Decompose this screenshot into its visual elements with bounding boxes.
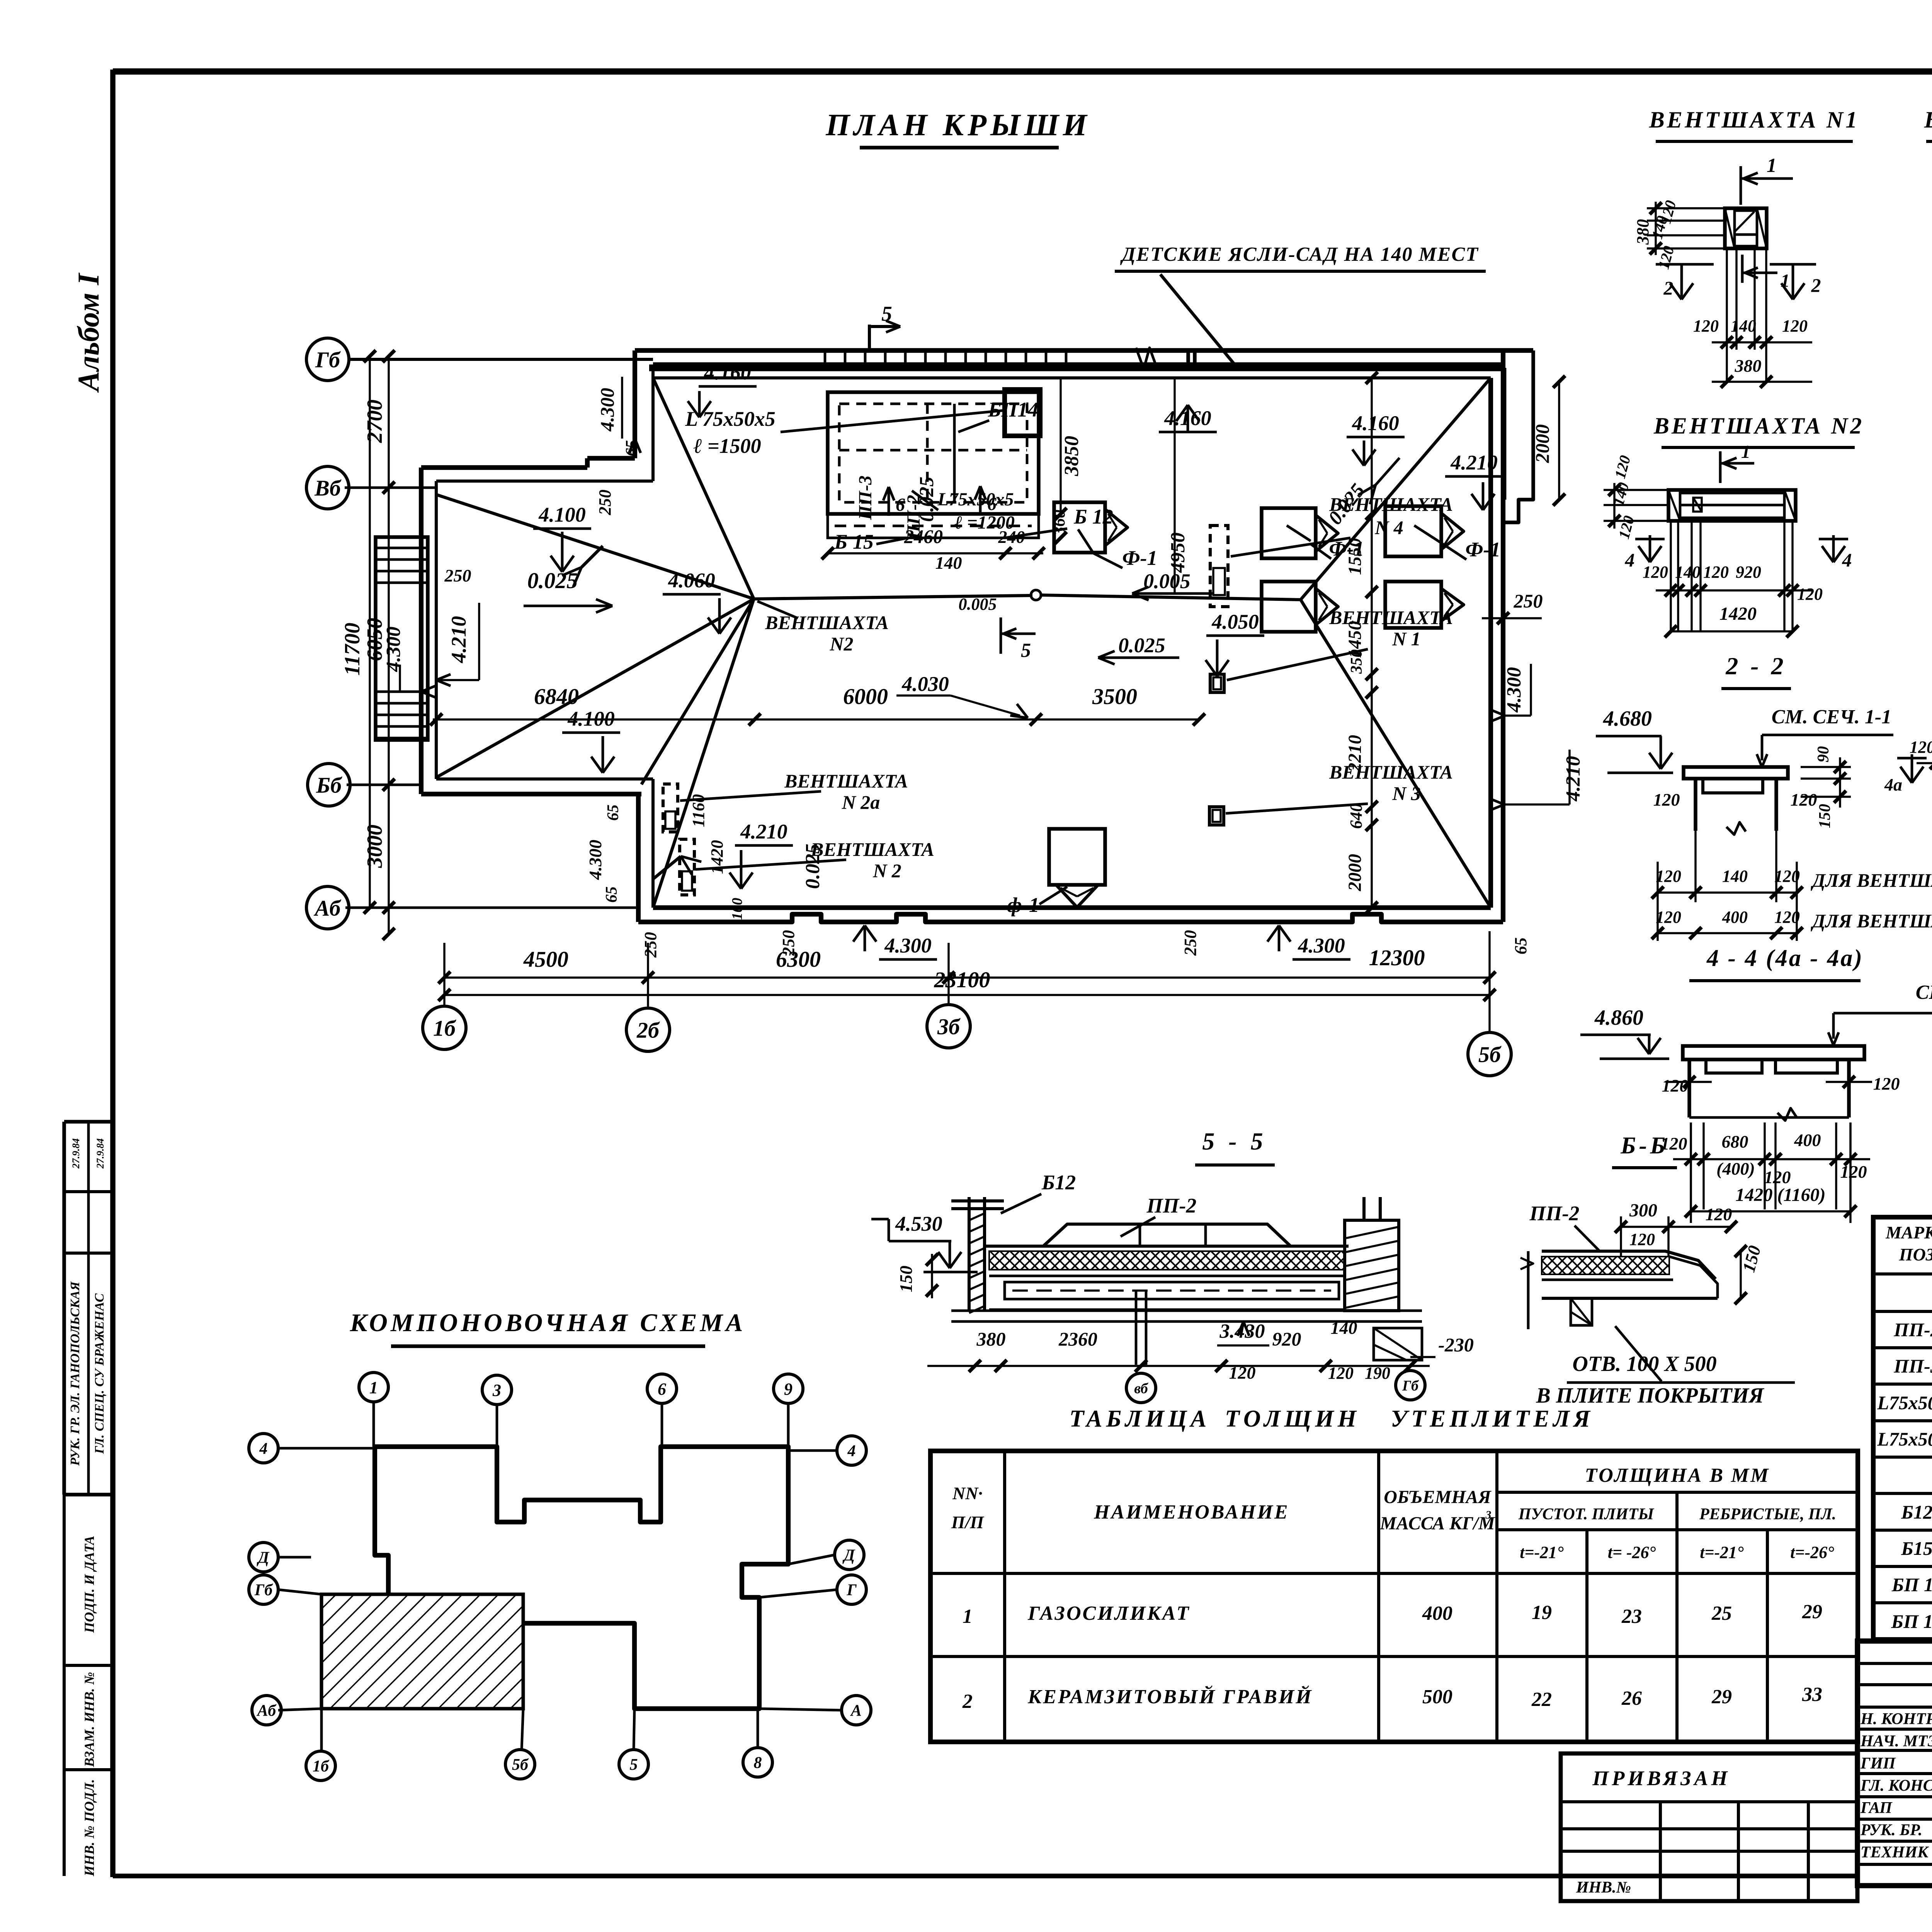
svg-text:65: 65 <box>1511 937 1530 954</box>
svg-text:25: 25 <box>1711 1602 1732 1624</box>
svg-text:4.160: 4.160 <box>704 361 751 384</box>
svg-text:2210: 2210 <box>1345 735 1365 772</box>
svg-text:1: 1 <box>1767 155 1777 177</box>
svg-text:ДЕТСКИЕ ЯСЛИ-САД НА 140 М: ДЕТСКИЕ ЯСЛИ-САД НА 140 МЕСТ <box>1120 243 1479 265</box>
svg-text:150: 150 <box>1816 804 1834 828</box>
svg-text:6840: 6840 <box>534 684 579 709</box>
svg-text:120: 120 <box>1791 790 1817 810</box>
svg-text:27.9.84: 27.9.84 <box>95 1138 106 1169</box>
svg-text:Гб: Гб <box>1402 1378 1419 1394</box>
svg-text:РУК. БР.: РУК. БР. <box>1860 1821 1922 1839</box>
svg-text:Гб: Гб <box>315 347 341 372</box>
svg-text:4.160: 4.160 <box>1352 412 1399 435</box>
svg-text:t=-26°: t=-26° <box>1790 1543 1834 1562</box>
svg-text:4: 4 <box>1842 549 1852 571</box>
svg-text:ВЕНТШАХТА N23: ВЕНТШАХТА N23 <box>1924 107 1932 133</box>
svg-text:240: 240 <box>998 527 1025 547</box>
svg-text:120: 120 <box>1629 1230 1655 1249</box>
svg-text:ГИП: ГИП <box>1860 1755 1896 1772</box>
svg-text:120: 120 <box>1910 738 1932 757</box>
svg-text:5 - 5: 5 - 5 <box>1202 1128 1267 1155</box>
svg-text:N 4: N 4 <box>1374 517 1403 538</box>
svg-text:ОТВ. 100 X 500: ОТВ. 100 X 500 <box>1572 1352 1716 1376</box>
svg-text:250: 250 <box>1181 930 1200 956</box>
svg-text:ГЛ. СПЕЦ. СУ БРАЖЕНАС: ГЛ. СПЕЦ. СУ БРАЖЕНАС <box>92 1293 107 1454</box>
svg-text:33: 33 <box>1802 1684 1822 1706</box>
svg-text:ВЕНТШАХТА: ВЕНТШАХТА <box>765 612 889 633</box>
svg-text:НАЧ. МТЭП: НАЧ. МТЭП <box>1860 1733 1932 1750</box>
svg-text:4.300: 4.300 <box>1503 667 1525 713</box>
svg-text:-230: -230 <box>1438 1334 1474 1355</box>
svg-text:680: 680 <box>1722 1132 1748 1151</box>
svg-text:4.210: 4.210 <box>740 820 787 843</box>
svg-text:Б12: Б12 <box>1041 1171 1076 1194</box>
svg-text:23100: 23100 <box>934 967 990 992</box>
svg-text:ПЛАН КРЫШИ: ПЛАН КРЫШИ <box>825 108 1091 142</box>
svg-text:2000: 2000 <box>1531 424 1553 463</box>
svg-text:N 3: N 3 <box>1392 782 1421 804</box>
svg-text:0.005: 0.005 <box>959 595 997 614</box>
svg-text:ГЛ. КОНСТ: ГЛ. КОНСТ <box>1860 1777 1932 1795</box>
svg-text:4.030: 4.030 <box>901 672 949 696</box>
svg-text:КЕРАМЗИТОВЫЙ ГРАВИЙ: КЕРАМЗИТОВЫЙ ГРАВИЙ <box>1027 1685 1313 1708</box>
svg-text:5: 5 <box>881 302 892 325</box>
svg-text:29: 29 <box>1711 1686 1732 1708</box>
svg-text:ГАЗОСИЛИКАТ: ГАЗОСИЛИКАТ <box>1027 1602 1190 1624</box>
svg-text:ПОДП. И ДАТА: ПОДП. И ДАТА <box>82 1536 97 1633</box>
svg-text:140: 140 <box>1331 1318 1357 1338</box>
svg-text:1420: 1420 <box>707 840 726 874</box>
svg-text:Г: Г <box>846 1582 857 1599</box>
svg-text:1б: 1б <box>313 1758 330 1776</box>
svg-text:4.210: 4.210 <box>1450 451 1498 474</box>
svg-text:РУК. ГР. ЭЛ. ГАНОПОЛЬСКАЯ: РУК. ГР. ЭЛ. ГАНОПОЛЬСКАЯ <box>68 1281 82 1466</box>
svg-text:2: 2 <box>1811 274 1821 296</box>
svg-text:Б12: Б12 <box>1901 1501 1932 1523</box>
svg-text:380: 380 <box>1735 356 1762 376</box>
svg-text:L75x50x5: L75x50x5 <box>937 489 1014 510</box>
svg-text:МАССА КГ/М: МАССА КГ/М <box>1379 1513 1496 1534</box>
svg-text:ВЕНТШАХТА N1: ВЕНТШАХТА N1 <box>1649 107 1859 133</box>
svg-text:8: 8 <box>754 1754 762 1772</box>
svg-text:ВЕНТШАХТА N2: ВЕНТШАХТА N2 <box>1653 413 1864 439</box>
svg-text:250: 250 <box>444 566 471 585</box>
svg-text:Ф-1: Ф-1 <box>1122 546 1158 570</box>
svg-text:L75x50x5: L75x50x5 <box>1877 1392 1932 1413</box>
svg-text:120: 120 <box>1653 790 1680 810</box>
svg-text:500: 500 <box>1422 1686 1452 1708</box>
svg-text:СМ. СЕЧ. 1-1: СМ. СЕЧ. 1-1 <box>1772 706 1892 728</box>
svg-text:N2: N2 <box>829 633 853 655</box>
svg-text:4.300: 4.300 <box>585 840 605 880</box>
svg-text:250: 250 <box>1514 590 1543 612</box>
svg-text:ТОЛЩИНА В ММ: ТОЛЩИНА В ММ <box>1585 1464 1770 1486</box>
svg-text:ПП-3: ПП-3 <box>855 476 876 520</box>
svg-text:0.025: 0.025 <box>1118 634 1165 657</box>
svg-text:27.9.84: 27.9.84 <box>70 1138 82 1169</box>
svg-text:4.050: 4.050 <box>1211 610 1259 633</box>
svg-text:Альбом I: Альбом I <box>71 272 105 393</box>
svg-text:4.210: 4.210 <box>1562 756 1584 802</box>
svg-text:1420 (1160): 1420 (1160) <box>1735 1185 1825 1205</box>
svg-text:150: 150 <box>896 1266 916 1293</box>
svg-text:120: 120 <box>1840 1162 1867 1182</box>
svg-text:ВЕНТШАХТА: ВЕНТШАХТА <box>784 770 908 792</box>
svg-text:ТЕХНИК: ТЕХНИК <box>1861 1844 1929 1861</box>
svg-text:140: 140 <box>935 553 962 573</box>
svg-text:Б 12: Б 12 <box>1073 505 1113 528</box>
svg-text:250: 250 <box>595 490 614 515</box>
svg-text:120: 120 <box>1764 1167 1791 1187</box>
svg-text:380: 380 <box>976 1328 1006 1350</box>
svg-text:1550: 1550 <box>1345 538 1365 575</box>
svg-text:4.210: 4.210 <box>447 616 470 663</box>
svg-text:ИНВ.№: ИНВ.№ <box>1576 1879 1631 1896</box>
svg-text:120: 120 <box>1656 867 1681 886</box>
svg-text:3500: 3500 <box>1092 684 1137 709</box>
svg-text:ГАП: ГАП <box>1860 1799 1893 1817</box>
svg-text:1420: 1420 <box>1719 604 1757 624</box>
svg-text:120: 120 <box>1643 563 1668 582</box>
svg-text:100: 100 <box>729 898 745 920</box>
svg-text:350: 350 <box>1348 650 1366 674</box>
svg-text:0.025: 0.025 <box>527 568 578 593</box>
svg-text:140: 140 <box>1675 563 1701 582</box>
svg-text:4.860: 4.860 <box>1594 1006 1643 1030</box>
svg-text:2460: 2460 <box>904 526 943 547</box>
svg-text:ДЛЯ ВЕНТШАХТЫ N1: ДЛЯ ВЕНТШАХТЫ N1 <box>1811 869 1932 891</box>
svg-text:300: 300 <box>1629 1200 1657 1221</box>
svg-text:БП 11: БП 11 <box>1891 1574 1932 1595</box>
svg-text:СМ.СЕЧ.1-1: СМ.СЕЧ.1-1 <box>1916 981 1932 1003</box>
svg-text:Д: Д <box>842 1547 855 1565</box>
svg-text:L75x50x5: L75x50x5 <box>1877 1428 1932 1450</box>
svg-text:65: 65 <box>603 886 621 903</box>
svg-text:120: 120 <box>1656 908 1681 927</box>
svg-text:4.060: 4.060 <box>668 569 715 592</box>
svg-text:5б: 5б <box>1478 1042 1502 1067</box>
svg-text:УТЕПЛИТЕЛЯ: УТЕПЛИТЕЛЯ <box>1391 1406 1594 1432</box>
svg-text:5: 5 <box>1021 639 1031 662</box>
svg-text:6: 6 <box>658 1379 666 1398</box>
svg-text:ИНВ. № ПОДЛ.: ИНВ. № ПОДЛ. <box>82 1779 97 1876</box>
svg-text:1: 1 <box>1741 442 1750 462</box>
svg-text:120: 120 <box>1703 563 1729 582</box>
svg-text:ПРИВЯЗАН: ПРИВЯЗАН <box>1592 1767 1730 1790</box>
svg-text:БП 14: БП 14 <box>1891 1611 1932 1632</box>
svg-text:Гб: Гб <box>254 1582 273 1599</box>
svg-text:22: 22 <box>1531 1689 1552 1711</box>
svg-text:2360: 2360 <box>1058 1328 1097 1350</box>
svg-text:4.300: 4.300 <box>1298 934 1345 957</box>
svg-text:1160: 1160 <box>689 794 708 827</box>
svg-text:3: 3 <box>1485 1509 1492 1521</box>
svg-text:Аб: Аб <box>256 1702 277 1720</box>
svg-text:БП14: БП14 <box>988 398 1038 421</box>
svg-text:НАИМЕНОВАНИЕ: НАИМЕНОВАНИЕ <box>1094 1501 1289 1523</box>
svg-text:920: 920 <box>1272 1328 1301 1350</box>
svg-text:ВЕНТШАХТА: ВЕНТШАХТА <box>810 838 934 860</box>
svg-text:ПП-2: ПП-2 <box>1893 1319 1932 1340</box>
svg-text:190: 190 <box>1365 1364 1390 1383</box>
svg-text:t= -26°: t= -26° <box>1608 1543 1656 1562</box>
svg-text:вб: вб <box>1134 1380 1148 1396</box>
svg-text:Аб: Аб <box>314 895 342 920</box>
svg-text:ПП-3: ПП-3 <box>1893 1355 1932 1377</box>
svg-text:Б 15: Б 15 <box>834 530 874 553</box>
svg-text:4: 4 <box>259 1440 268 1458</box>
svg-text:12300: 12300 <box>1369 945 1425 970</box>
svg-text:П/П: П/П <box>951 1512 985 1532</box>
svg-text:Ф-1: Ф-1 <box>1466 538 1501 561</box>
svg-text:Д: Д <box>257 1549 270 1567</box>
svg-text:6000: 6000 <box>843 684 888 709</box>
svg-text:23: 23 <box>1621 1605 1642 1628</box>
svg-text:ПОЗ: ПОЗ <box>1899 1245 1932 1264</box>
svg-text:2: 2 <box>962 1690 973 1713</box>
svg-text:9: 9 <box>784 1379 793 1398</box>
svg-text:400: 400 <box>1422 1602 1452 1624</box>
svg-text:29: 29 <box>1802 1601 1822 1623</box>
svg-text:N 2а: N 2а <box>842 791 880 813</box>
svg-text:4 - 4 (4а - 4а): 4 - 4 (4а - 4а) <box>1706 945 1864 971</box>
svg-text:МАРКА: МАРКА <box>1885 1223 1932 1242</box>
svg-text:90: 90 <box>1815 746 1832 762</box>
svg-text:400: 400 <box>1722 908 1748 927</box>
svg-text:140: 140 <box>1731 316 1756 335</box>
svg-text:4.300: 4.300 <box>383 627 405 672</box>
svg-text:120: 120 <box>1782 316 1808 335</box>
svg-text:ПП-2: ПП-2 <box>1529 1202 1580 1225</box>
svg-text:0.025: 0.025 <box>802 844 824 889</box>
svg-text:4.100: 4.100 <box>567 707 615 730</box>
svg-text:4500: 4500 <box>523 947 568 972</box>
svg-text:140: 140 <box>1722 867 1748 886</box>
svg-text:t=-21°: t=-21° <box>1700 1543 1744 1562</box>
svg-text:2700: 2700 <box>363 400 387 443</box>
svg-text:4.300: 4.300 <box>884 934 932 957</box>
svg-text:640: 640 <box>1347 803 1366 829</box>
svg-text:РЕБРИСТЫЕ, ПЛ.: РЕБРИСТЫЕ, ПЛ. <box>1699 1505 1836 1523</box>
svg-text:3б: 3б <box>937 1014 961 1039</box>
svg-text:380: 380 <box>1633 219 1652 245</box>
svg-text:Н. КОНТР.: Н. КОНТР. <box>1860 1710 1932 1728</box>
svg-text:ПУСТОТ. ПЛИТЫ: ПУСТОТ. ПЛИТЫ <box>1518 1505 1655 1523</box>
svg-text:920: 920 <box>1736 563 1761 582</box>
svg-text:3000: 3000 <box>363 825 387 868</box>
svg-text:1: 1 <box>963 1605 973 1628</box>
svg-text:4: 4 <box>1625 549 1635 571</box>
svg-text:4.300: 4.300 <box>596 388 618 432</box>
svg-text:120: 120 <box>1328 1364 1354 1383</box>
svg-text:65: 65 <box>604 804 622 821</box>
svg-text:Б15: Б15 <box>1901 1537 1932 1559</box>
svg-text:4.100: 4.100 <box>538 503 586 526</box>
svg-text:А: А <box>850 1702 862 1720</box>
svg-text:t=-21°: t=-21° <box>1520 1543 1564 1562</box>
svg-text:КОМПОНОВОЧНАЯ СХЕМА: КОМПОНОВОЧНАЯ СХЕМА <box>350 1309 746 1337</box>
svg-text:120: 120 <box>1706 1204 1732 1224</box>
svg-text:ВЗАМ. ИНВ. №: ВЗАМ. ИНВ. № <box>82 1672 97 1767</box>
svg-text:1: 1 <box>1781 270 1790 291</box>
svg-text:120: 120 <box>1873 1074 1900 1094</box>
svg-text:26: 26 <box>1621 1687 1642 1709</box>
svg-text:0.005: 0.005 <box>1143 570 1190 593</box>
svg-text:4.530: 4.530 <box>895 1212 942 1235</box>
svg-text:2000: 2000 <box>1345 854 1365 891</box>
svg-text:В ПЛИТЕ ПОКРЫТИЯ: В ПЛИТЕ ПОКРЫТИЯ <box>1536 1384 1764 1408</box>
svg-text:ф-1: ф-1 <box>1007 893 1039 917</box>
svg-text:N 1: N 1 <box>1392 628 1421 650</box>
svg-text:1б: 1б <box>433 1015 456 1041</box>
svg-text:NN·: NN· <box>952 1483 983 1503</box>
svg-text:Бб: Бб <box>316 772 342 798</box>
svg-text:(400): (400) <box>1716 1159 1755 1179</box>
svg-text:5б: 5б <box>512 1756 529 1774</box>
svg-text:ДЛЯ ВЕНТШАХТЫ N3: ДЛЯ ВЕНТШАХТЫ N3 <box>1811 910 1932 932</box>
svg-text:4950: 4950 <box>1167 532 1189 573</box>
svg-text:11700: 11700 <box>340 623 364 676</box>
svg-text:4: 4 <box>847 1442 856 1460</box>
svg-text:3: 3 <box>492 1381 501 1400</box>
svg-text:400: 400 <box>1794 1130 1821 1150</box>
svg-text:ТОЛЩИН: ТОЛЩИН <box>1225 1406 1360 1432</box>
svg-text:ОБЪЕМНАЯ: ОБЪЕМНАЯ <box>1384 1487 1492 1507</box>
svg-text:250: 250 <box>641 932 660 958</box>
svg-text:120: 120 <box>1797 585 1823 604</box>
svg-text:2б: 2б <box>636 1017 660 1043</box>
svg-text:Вб: Вб <box>314 475 342 500</box>
svg-text:4.680: 4.680 <box>1603 707 1652 731</box>
svg-text:4а: 4а <box>1884 775 1902 794</box>
svg-text:ℓ =1500: ℓ =1500 <box>693 434 761 457</box>
svg-text:120: 120 <box>1693 316 1719 335</box>
svg-text:ПП-2: ПП-2 <box>1146 1194 1197 1217</box>
svg-text:ТАБЛИЦА: ТАБЛИЦА <box>1069 1406 1210 1432</box>
svg-text:N 2: N 2 <box>872 860 901 881</box>
svg-text:19: 19 <box>1532 1602 1552 1624</box>
svg-text:120: 120 <box>1229 1363 1256 1383</box>
svg-text:2: 2 <box>1663 277 1673 299</box>
svg-text:2 - 2: 2 - 2 <box>1725 652 1786 680</box>
svg-text:1: 1 <box>369 1378 378 1397</box>
svg-text:Б-Б: Б-Б <box>1620 1133 1668 1159</box>
svg-text:5: 5 <box>630 1756 638 1774</box>
svg-text:3850: 3850 <box>1061 436 1083 476</box>
svg-text:250: 250 <box>779 930 798 956</box>
svg-text:L 75x50x5: L 75x50x5 <box>685 407 775 430</box>
